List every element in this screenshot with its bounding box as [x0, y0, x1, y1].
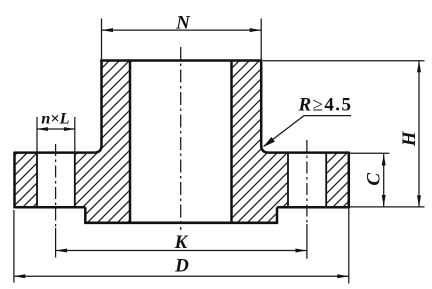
hub right outer wall with fillet	[261, 60, 268, 153]
bolt hole right, right edge	[325, 153, 327, 208]
dimension C line	[383, 154, 385, 207]
right bolt centerline	[306, 140, 308, 224]
leader R>=4.5 arrow	[263, 137, 275, 147]
hub left outer wall with fillet	[94, 60, 101, 153]
main centerline	[180, 47, 182, 230]
dimension C top arrow	[382, 154, 386, 166]
dimension D line	[14, 275, 349, 277]
shared bottom extension line	[288, 206, 425, 208]
flange top left	[15, 151, 95, 154]
hatched left flange outer segment	[15, 153, 38, 208]
svg-text:R≥4.5: R≥4.5	[298, 94, 353, 115]
hatched right flange inner segment with raised face	[232, 153, 289, 223]
dimension N left arrow	[102, 28, 114, 32]
dimension N extension line right	[260, 19, 262, 61]
dimension nxL right arrow	[64, 127, 75, 131]
hatched right hub wall	[232, 61, 269, 153]
left bolt centerline extension to K	[55, 228, 57, 258]
flange bottom left	[15, 206, 86, 209]
raised face left step	[84, 207, 87, 223]
leader R>=4.5 line	[264, 116, 351, 147]
dimension N right arrow	[250, 28, 262, 32]
bore right edge	[230, 61, 233, 223]
dimension nxL left arrow	[37, 127, 48, 131]
svg-text:n×L: n×L	[41, 108, 69, 127]
dimension D extension line left	[13, 210, 15, 283]
hatched left flange inner segment with raised face	[75, 153, 130, 223]
dimension H top arrow	[417, 61, 421, 73]
raised face bottom edge	[84, 222, 278, 225]
bolt hole right, left edge	[287, 153, 289, 208]
dimension C top extension line	[350, 152, 389, 154]
bolt hole left, left edge	[36, 153, 38, 208]
svg-text:D: D	[174, 255, 189, 276]
svg-text:K: K	[174, 232, 189, 253]
dimension C bottom arrow	[382, 195, 386, 207]
dimension nxL line	[37, 128, 75, 130]
right bolt centerline extension to K	[306, 224, 308, 259]
dimension D extension line right	[348, 208, 350, 283]
hatched right flange outer segment	[326, 153, 349, 208]
dimension H line	[418, 61, 420, 207]
dimension K line	[56, 250, 307, 252]
dimension H top extension line	[263, 60, 425, 62]
flange bottom right	[277, 206, 349, 209]
dimension D left arrow	[14, 274, 26, 278]
svg-text:N: N	[175, 13, 191, 34]
hatched left hub wall	[94, 61, 130, 153]
bore left edge	[129, 61, 132, 223]
flange left edge	[13, 152, 16, 209]
svg-text:H: H	[399, 130, 420, 147]
dimension K left arrow	[56, 249, 68, 253]
dimension D right arrow	[337, 274, 349, 278]
dimension N line	[102, 29, 262, 31]
dimension K right arrow	[295, 249, 307, 253]
flange right edge	[348, 152, 351, 209]
dimension nxL extension line left	[36, 117, 38, 153]
flange top right	[268, 151, 348, 154]
dimension N extension line left	[101, 19, 103, 61]
dimension H bottom arrow	[417, 195, 421, 207]
hub top edge	[100, 59, 262, 62]
raised face right step	[276, 207, 279, 223]
dimension nxL extension line right	[74, 117, 76, 153]
svg-text:C: C	[364, 173, 385, 186]
left bolt centerline	[55, 144, 57, 228]
bolt hole left, right edge	[74, 153, 76, 208]
